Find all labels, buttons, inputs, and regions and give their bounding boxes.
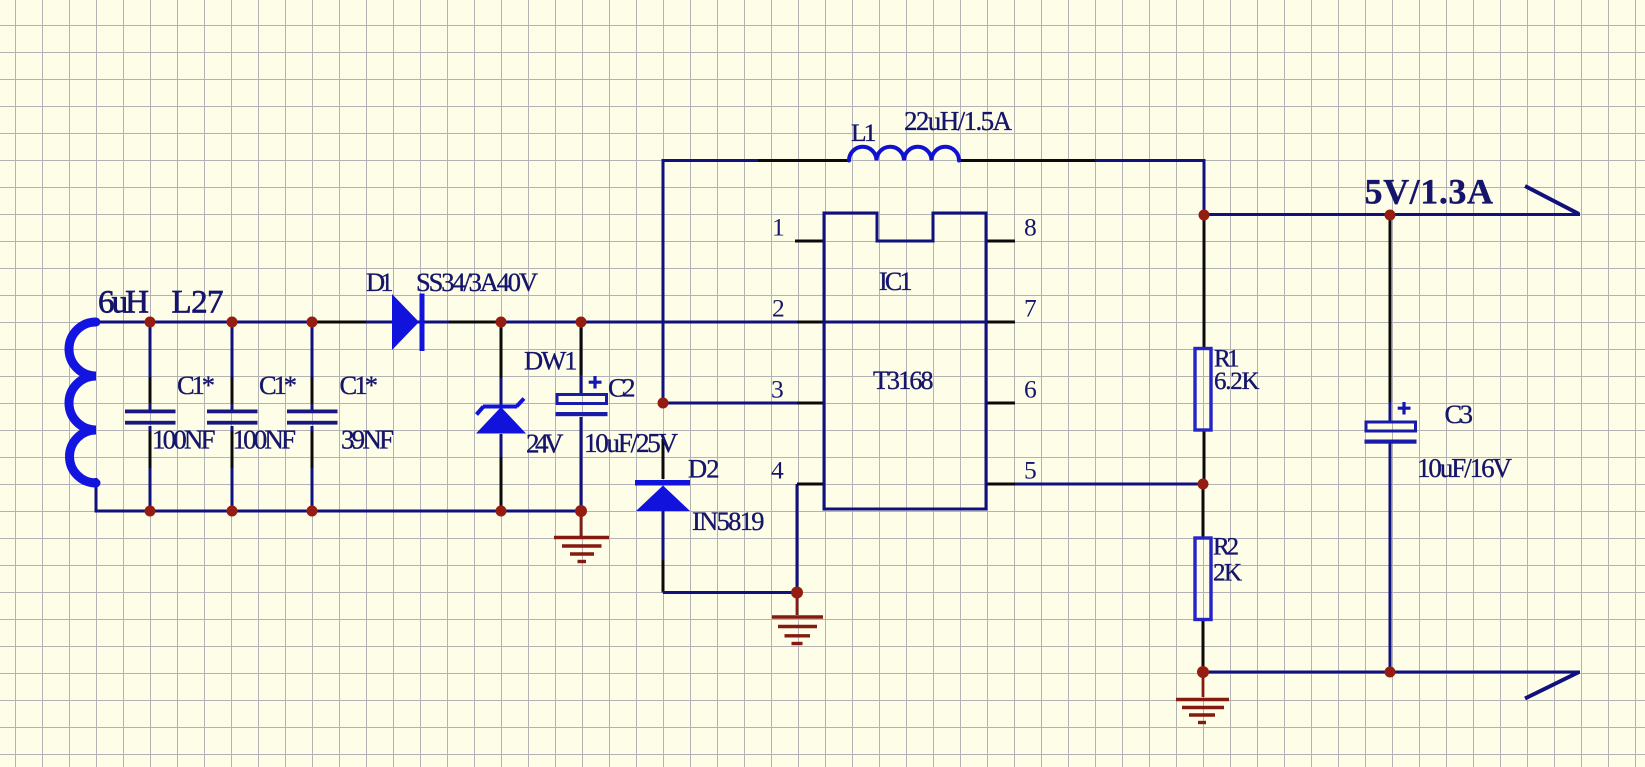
svg-text:C2: C2 — [608, 373, 636, 403]
svg-text:6: 6 — [1024, 374, 1037, 403]
svg-text:6.2K: 6.2K — [1214, 368, 1260, 395]
svg-text:D1: D1 — [366, 267, 394, 297]
svg-text:C1*: C1* — [177, 370, 215, 400]
svg-text:T3168: T3168 — [873, 366, 934, 395]
svg-text:3: 3 — [771, 374, 784, 403]
svg-text:1: 1 — [772, 212, 785, 241]
svg-text:D2: D2 — [688, 454, 720, 484]
svg-text:IN5819: IN5819 — [692, 506, 765, 536]
svg-text:4: 4 — [771, 455, 784, 484]
svg-text:SS34/3A40V: SS34/3A40V — [416, 267, 538, 297]
svg-text:8: 8 — [1024, 212, 1037, 241]
svg-text:100NF: 100NF — [233, 425, 297, 455]
svg-text:R2: R2 — [1213, 534, 1239, 561]
svg-text:C1*: C1* — [259, 370, 297, 400]
svg-text:L27: L27 — [172, 285, 224, 321]
svg-text:5: 5 — [1024, 455, 1037, 484]
svg-text:10uF/16V: 10uF/16V — [1417, 453, 1513, 483]
svg-text:DW1: DW1 — [524, 346, 578, 376]
svg-text:C3: C3 — [1445, 399, 1474, 429]
svg-text:5V/1.3A: 5V/1.3A — [1365, 172, 1494, 212]
svg-text:39NF: 39NF — [341, 425, 394, 455]
svg-text:10uF/25V: 10uF/25V — [584, 428, 679, 458]
svg-text:IC1: IC1 — [879, 267, 913, 296]
svg-text:6uH: 6uH — [98, 285, 149, 321]
svg-text:7: 7 — [1024, 293, 1037, 322]
svg-text:100NF: 100NF — [152, 425, 216, 455]
svg-text:C1*: C1* — [340, 370, 379, 400]
svg-text:2K: 2K — [1213, 560, 1242, 587]
svg-text:22uH/1.5A: 22uH/1.5A — [904, 106, 1013, 136]
svg-text:24V: 24V — [526, 429, 564, 459]
svg-text:L1: L1 — [851, 118, 877, 147]
svg-text:2: 2 — [772, 293, 785, 322]
